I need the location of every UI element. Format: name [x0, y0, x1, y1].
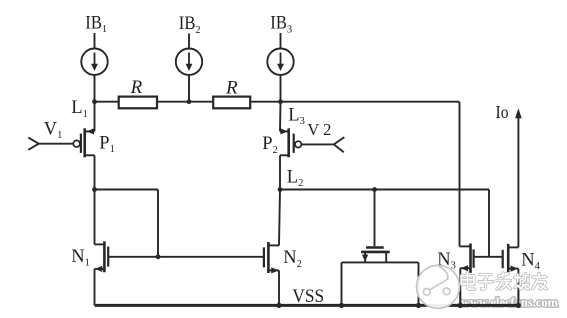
svg-text:L1: L1 [71, 98, 88, 120]
svg-text:N4: N4 [521, 251, 540, 273]
svg-text:P1: P1 [99, 133, 115, 155]
svg-text:IB3: IB3 [270, 14, 292, 36]
svg-text:R: R [225, 78, 238, 99]
svg-text:IB1: IB1 [85, 13, 107, 35]
svg-text:R: R [130, 77, 143, 98]
svg-text:VSS: VSS [292, 287, 324, 307]
svg-text:L2: L2 [287, 167, 304, 189]
svg-text:www.elecfans.com: www.elecfans.com [461, 295, 558, 310]
svg-text:V1: V1 [44, 119, 63, 141]
svg-text:IB2: IB2 [179, 14, 201, 36]
svg-text:P2: P2 [262, 134, 278, 156]
svg-text:Io: Io [496, 102, 509, 122]
svg-text:L3: L3 [288, 106, 305, 128]
svg-text:V 2: V 2 [307, 120, 331, 139]
svg-text:N2: N2 [283, 248, 302, 270]
svg-text:N1: N1 [71, 247, 90, 269]
